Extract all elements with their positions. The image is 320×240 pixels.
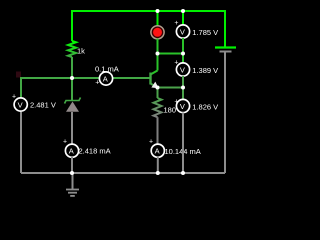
resistor R1 1k (vertical zigzag) (68, 41, 76, 57)
zener diode D1 top lead (71, 78, 73, 100)
wire base rail 2.48V (21, 78, 150, 97)
voltmeter V4 2.481 V (14, 98, 27, 111)
svg-text:+: + (95, 80, 99, 87)
battery B1 5V positive plate (215, 46, 236, 48)
zener cathode bar (65, 98, 81, 104)
transistor Q1 base bar (149, 73, 151, 85)
svg-text:+: + (12, 94, 16, 101)
V1 bottom lead 3.2V (182, 38, 184, 63)
voltmeter V1 1.785 V (176, 25, 189, 38)
voltmeter V3 1.826 V (176, 99, 189, 112)
svg-text:1k: 1k (77, 47, 85, 56)
ammeter A3 10.144 mA (151, 144, 164, 157)
svg-text:+: + (149, 138, 153, 145)
wire LED node to V-chain 3.2V (158, 53, 184, 55)
V3 bottom lead 0V (182, 113, 184, 174)
LED D2 (151, 26, 164, 39)
svg-text:V: V (180, 102, 185, 111)
svg-text:1.785 V: 1.785 V (192, 28, 218, 37)
transistor Q1 collector arm (151, 71, 158, 75)
wire collector 3.2V (157, 54, 159, 71)
battery negative lead (224, 52, 226, 174)
V2 bottom lead 1.83V (182, 76, 184, 99)
wire A2 to ground rail (71, 157, 73, 173)
svg-text:2.481 V: 2.481 V (30, 100, 56, 109)
svg-text:A: A (155, 147, 160, 156)
svg-text:+: + (174, 20, 178, 27)
zener anode triangle (66, 102, 79, 112)
transistor Q1 emitter arm (151, 84, 158, 88)
LED bottom lead 3.2V (157, 39, 159, 54)
ammeter A1 0.1 mA (99, 72, 112, 85)
svg-text:+: + (174, 60, 178, 67)
svg-text:0.1 mA: 0.1 mA (95, 65, 119, 74)
svg-text:V: V (18, 100, 23, 109)
wire emitter to V-chain 1.83V (158, 87, 184, 89)
svg-text:+: + (174, 98, 178, 105)
wire resistor bottom to base node (71, 57, 73, 78)
resistor R2 bottom lead (157, 117, 159, 144)
svg-text:2.418 mA: 2.418 mA (79, 147, 111, 156)
battery B1 negative plate (220, 51, 232, 53)
resistor R2 180 top lead (157, 88, 159, 99)
voltmeter V4 2.481 V leads (20, 112, 22, 173)
svg-text:1.826 V: 1.826 V (192, 102, 218, 111)
svg-text:1.389 V: 1.389 V (192, 66, 218, 75)
junction node dots (156, 9, 160, 13)
svg-text:180: 180 (164, 106, 177, 115)
ground symbol (72, 173, 74, 189)
LED D2 top lead (157, 11, 159, 26)
svg-text:A: A (103, 74, 108, 83)
svg-text:A: A (69, 147, 74, 156)
svg-text:V: V (180, 27, 185, 36)
ammeter A2 2.418 mA (65, 144, 78, 157)
transistor Q1 emitter arrow (151, 82, 158, 89)
wire top rail 5V from resistor top to battery (72, 11, 225, 47)
svg-text:+: + (63, 138, 67, 145)
voltmeter chain top lead 5V (182, 11, 184, 25)
zener bottom lead (71, 112, 73, 144)
voltmeter V2 1.389 V (176, 63, 189, 76)
svg-text:V: V (180, 65, 185, 74)
bottom ground rail 0V (21, 172, 225, 174)
resistor R2 180 zigzag (154, 98, 162, 117)
wire A3 to ground rail (157, 157, 159, 173)
faint scope marker (16, 72, 21, 78)
